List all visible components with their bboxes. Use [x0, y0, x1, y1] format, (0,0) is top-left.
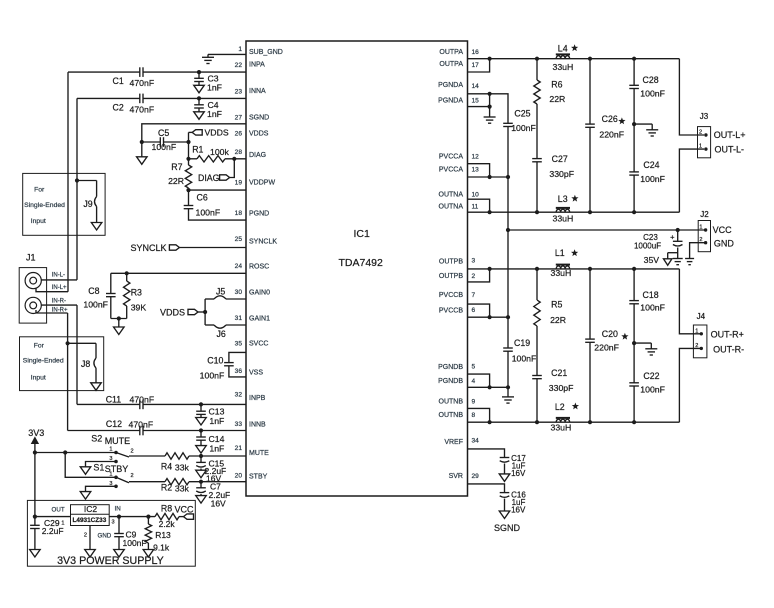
svg-text:100nF: 100nF: [200, 370, 225, 380]
star L1: [571, 249, 578, 256]
svg-text:16V: 16V: [211, 499, 226, 509]
node stby feed junction: [63, 450, 67, 454]
svg-text:18: 18: [235, 210, 243, 217]
IC IC1 TDA7492 body: [246, 41, 468, 496]
wire IC2 GND pin: [89, 526, 91, 550]
ground bars PGNDB: [502, 396, 514, 398]
svg-text:+: +: [670, 232, 675, 241]
svg-text:J8: J8: [81, 359, 90, 369]
ground arrow below C29: [34, 529, 36, 550]
resistor R2 33k: [165, 479, 189, 485]
svg-text:100nF: 100nF: [196, 208, 221, 218]
node INNA junction: [197, 96, 201, 100]
wire R1 row to pin28: [189, 158, 198, 160]
wire OUT-R- to J4: [679, 348, 700, 422]
wire VCC row to J2: [508, 229, 706, 231]
svg-text:J9: J9: [83, 199, 92, 209]
capacitor C1 470nF: [139, 67, 141, 77]
svg-text:VDDS: VDDS: [160, 308, 185, 318]
svg-text:100nF: 100nF: [123, 538, 147, 548]
svg-text:For: For: [34, 343, 45, 350]
svg-text:100nF: 100nF: [640, 88, 665, 98]
svg-text:PGNDB: PGNDB: [438, 378, 463, 385]
svg-text:4: 4: [472, 378, 476, 385]
svg-text:OUT-R+: OUT-R+: [711, 329, 744, 339]
wire IN-L- vertical: [76, 98, 78, 280]
node C18/C22 mid junction: [632, 341, 636, 345]
node R7 bottom / pin19 junction: [186, 188, 190, 192]
svg-text:S2: S2: [91, 434, 102, 444]
resistor R1 100k: [197, 156, 225, 162]
jumper J6: [214, 325, 226, 328]
node R5/C21 bottom: [535, 420, 539, 424]
svg-text:VREF: VREF: [444, 439, 463, 446]
svg-text:12: 12: [472, 153, 480, 160]
svg-text:PVCCB: PVCCB: [439, 292, 463, 299]
svg-text:C19: C19: [514, 338, 530, 348]
svg-text:39K: 39K: [131, 303, 147, 313]
capacitor C27 330pF: [536, 104, 538, 159]
svg-text:VSS: VSS: [249, 370, 263, 377]
svg-text:22R: 22R: [550, 315, 566, 325]
svg-text:SYNCLK: SYNCLK: [249, 239, 277, 246]
resistor R8 2.2k: [155, 513, 179, 519]
svg-text:Input: Input: [31, 218, 46, 225]
svg-text:1: 1: [699, 225, 702, 231]
svg-text:J4: J4: [697, 312, 706, 321]
wire down to R1/R7 junction: [188, 142, 190, 165]
svg-text:470nF: 470nF: [130, 105, 155, 115]
svg-text:33k: 33k: [175, 463, 190, 473]
svg-text:VDDS: VDDS: [205, 128, 229, 138]
svg-text:OUTPB: OUTPB: [439, 259, 463, 266]
wire OUTPB row pin3: [468, 268, 680, 270]
svg-text:PGNDA: PGNDA: [438, 98, 463, 105]
svg-text:21: 21: [235, 445, 243, 452]
svg-text:C28: C28: [643, 75, 659, 85]
svg-text:100nF: 100nF: [511, 123, 536, 133]
node pin16/17 junction: [488, 57, 492, 61]
capacitor C7 2.2uF 16V: [200, 482, 202, 488]
svg-text:C27: C27: [552, 154, 568, 164]
svg-text:3: 3: [109, 456, 112, 462]
ground bars PGNDA: [484, 116, 496, 118]
node C18/C22 bottom: [632, 420, 636, 424]
resistor R7 22R: [185, 165, 191, 188]
wire rail to ground B: [507, 387, 509, 397]
ground bars A mid: [646, 129, 658, 131]
ground arrow S1: [80, 492, 91, 500]
wire pin35 SVCC: [229, 352, 246, 362]
svg-text:INPB: INPB: [249, 395, 266, 402]
svg-text:SVR: SVR: [449, 473, 463, 480]
wire pin12 bracket: [468, 164, 490, 177]
svg-text:7: 7: [472, 292, 476, 299]
svg-text:IN-R+: IN-R+: [52, 308, 68, 314]
svg-text:MUTE: MUTE: [105, 436, 131, 446]
wire to mid ground B: [634, 342, 651, 344]
svg-text:OUT-R-: OUT-R-: [713, 344, 744, 354]
ground arrow below C7: [200, 494, 202, 496]
resistor R3 39K: [126, 273, 128, 281]
node C20 top: [588, 267, 592, 271]
svg-text:C22: C22: [643, 371, 659, 381]
svg-text:SUB_GND: SUB_GND: [249, 49, 283, 56]
capacitor C18 100nF: [633, 269, 635, 301]
wire OUTPA row pin16: [468, 58, 680, 60]
svg-text:16V: 16V: [511, 469, 526, 478]
ground arrow S2: [80, 467, 91, 475]
capacitor C20 220nF: [589, 269, 591, 339]
svg-text:GND: GND: [98, 533, 112, 540]
regulator IC2 L4931CZ33: [71, 505, 110, 526]
star C20: [621, 333, 628, 340]
svg-text:2: 2: [131, 473, 134, 479]
svg-text:OUTPA: OUTPA: [439, 49, 463, 56]
svg-text:35: 35: [235, 341, 243, 348]
wire pin30 GAIN0: [205, 298, 214, 300]
svg-text:VDDPW: VDDPW: [249, 180, 275, 187]
node ground junction: [117, 316, 121, 320]
svg-text:R7: R7: [171, 162, 182, 172]
svg-text:9: 9: [472, 399, 476, 406]
wire J1 IN-L+ pin: [36, 288, 68, 292]
node R13 junction: [146, 515, 150, 519]
svg-text:3: 3: [109, 481, 112, 487]
ground arrow J8: [91, 383, 102, 391]
svg-text:C10: C10: [207, 355, 223, 365]
wire OUT-R+ to J4: [679, 269, 700, 334]
capacitor C19 100nF: [507, 317, 509, 348]
capacitor C26 220nF: [589, 59, 591, 124]
wire pin34 VREF: [468, 449, 505, 458]
svg-text:R2: R2: [161, 482, 172, 492]
svg-text:PGNDB: PGNDB: [438, 364, 463, 371]
svg-text:33uH: 33uH: [553, 62, 574, 72]
svg-text:100nF: 100nF: [512, 354, 537, 364]
3V3 power supply box: [27, 500, 195, 566]
node C20 bottom: [588, 420, 592, 424]
svg-text:8: 8: [472, 412, 476, 419]
svg-text:1nF: 1nF: [209, 416, 224, 426]
wire pin1 SUB_GND: [208, 53, 246, 55]
flag VDDS net at gain: [198, 311, 205, 313]
ground arrow below C17: [504, 464, 506, 474]
wire pin36 VSS: [229, 366, 246, 377]
node pin10/11 junction: [488, 210, 492, 214]
svg-text:25: 25: [235, 236, 243, 243]
node INPA junction: [197, 70, 201, 74]
svg-text:31: 31: [235, 315, 243, 322]
svg-text:22R: 22R: [549, 94, 565, 104]
capacitor C5 100nF: [142, 141, 161, 143]
svg-text:1: 1: [699, 144, 702, 150]
node R1 right junction: [232, 157, 236, 161]
capacitor C3 1nF: [198, 72, 200, 78]
wire pin4 PGNDB row: [468, 386, 509, 388]
star C26: [618, 117, 625, 124]
svg-text:IN-L-: IN-L-: [52, 273, 65, 279]
svg-text:INPA: INPA: [249, 62, 265, 69]
wire pin27 SGND: [142, 124, 246, 142]
resistor R5 22R: [536, 269, 538, 300]
svg-text:STBY: STBY: [249, 474, 268, 481]
wire OUT-L+ to J3: [679, 59, 704, 135]
svg-text:2: 2: [695, 343, 698, 349]
node VDDS gain junction: [203, 310, 207, 314]
wire pin2 bracket: [468, 269, 490, 282]
wire stby feed: [65, 453, 116, 478]
svg-text:C11: C11: [106, 394, 122, 404]
star L4: [571, 44, 578, 51]
svg-text:33uH: 33uH: [553, 214, 574, 224]
svg-text:For: For: [34, 186, 45, 193]
svg-text:100nF: 100nF: [640, 303, 665, 313]
node VDDS junction on C5 row: [186, 140, 190, 144]
capacitor C29 2.2uF: [34, 517, 36, 526]
ground arrow C23: [663, 259, 672, 266]
svg-text:33k: 33k: [175, 484, 190, 494]
svg-text:IN-R-: IN-R-: [52, 298, 66, 304]
svg-text:MUTE: MUTE: [249, 450, 269, 457]
svg-text:22: 22: [235, 62, 243, 69]
svg-text:15: 15: [472, 98, 480, 105]
wire pin14 PGNDA to C25: [468, 94, 509, 124]
ground bars at SUB_GND: [202, 56, 214, 58]
svg-text:IC1: IC1: [354, 228, 371, 240]
svg-text:330pF: 330pF: [549, 383, 574, 393]
svg-text:5: 5: [472, 363, 476, 370]
wire MUTE row: [129, 455, 165, 457]
svg-text:L1: L1: [555, 248, 565, 258]
capacitor C10 100nF: [224, 362, 234, 364]
wire INPA row: [68, 71, 140, 73]
svg-text:470nF: 470nF: [130, 78, 155, 88]
svg-text:11: 11: [472, 204, 479, 211]
wire C8/R3 bottom join: [111, 318, 127, 320]
flag DIAG net: [220, 175, 230, 180]
wire IN-L+ vertical: [67, 72, 69, 292]
svg-text:33uH: 33uH: [551, 423, 572, 433]
capacitor C8 100nF: [110, 273, 112, 293]
svg-text:PVCCA: PVCCA: [439, 153, 463, 160]
svg-text:L4: L4: [558, 43, 568, 53]
capacitor C15 2.2uF 16V: [200, 456, 202, 462]
node C28/C24 bottom: [632, 210, 636, 214]
svg-text:Single-Ended: Single-Ended: [24, 202, 65, 209]
svg-text:OUT-L-: OUT-L-: [715, 145, 745, 155]
svg-text:R6: R6: [551, 79, 562, 89]
svg-text:STBY: STBY: [105, 464, 129, 474]
svg-text:1000uF: 1000uF: [634, 241, 661, 250]
node pin3/2 junction: [488, 267, 492, 271]
svg-text:2: 2: [472, 273, 476, 280]
svg-text:VCC: VCC: [175, 505, 195, 515]
ground bars J2: [685, 258, 694, 260]
node pin15 junction: [488, 105, 492, 109]
capacitor C16 1uF 16V: [500, 492, 510, 494]
node C9 junction: [117, 515, 121, 519]
capacitor C24 100nF: [633, 124, 635, 172]
svg-text:J6: J6: [217, 329, 226, 339]
node PVCCB rail junction: [506, 315, 510, 319]
wire IC2 OUT to 3V3 rail: [35, 516, 71, 518]
svg-text:VDDS: VDDS: [249, 130, 269, 137]
svg-text:R8: R8: [161, 503, 172, 513]
wire OUTNA row pin11: [468, 211, 680, 213]
svg-text:Input: Input: [31, 375, 46, 382]
svg-text:C20: C20: [602, 329, 618, 339]
wire mute feed: [35, 452, 116, 454]
node pin14 junction: [488, 92, 492, 96]
svg-text:PGND: PGND: [249, 211, 269, 218]
svg-text:L4931CZ33: L4931CZ33: [73, 517, 107, 524]
svg-text:100nF: 100nF: [640, 385, 665, 395]
svg-text:IN-L+: IN-L+: [52, 285, 67, 291]
wire INPB row: [77, 403, 140, 405]
wire PVCC rail: [507, 177, 509, 317]
svg-text:C5: C5: [158, 128, 169, 138]
ground arrow below C4: [198, 108, 200, 112]
svg-text:19: 19: [235, 180, 243, 187]
ground bars B mid: [645, 348, 657, 350]
svg-text:C21: C21: [551, 368, 567, 378]
capacitor C12 470nF: [139, 426, 141, 436]
svg-text:J3: J3: [700, 112, 709, 121]
svg-text:DIAG: DIAG: [198, 173, 220, 183]
jumper J5: [214, 296, 226, 299]
svg-text:C18: C18: [643, 290, 659, 300]
wire INNA row: [77, 97, 140, 99]
svg-text:100nF: 100nF: [640, 174, 665, 184]
ground arrow below C3: [198, 82, 200, 86]
node J8 junction: [66, 341, 70, 345]
svg-text:33: 33: [235, 421, 243, 428]
node pin12/13 junction: [488, 175, 492, 179]
resistor R4 33k: [165, 453, 189, 459]
wire GAIN bracket vertical: [204, 299, 206, 325]
svg-text:OUTNB: OUTNB: [439, 399, 464, 406]
capacitor C28 100nF: [633, 59, 635, 86]
svg-text:SGND: SGND: [494, 523, 521, 533]
svg-text:L3: L3: [558, 194, 568, 204]
ground arrow below C5 junction: [141, 142, 143, 157]
svg-text:IC2: IC2: [84, 504, 98, 514]
inductor L4 33uH: [556, 56, 569, 59]
svg-text:J1: J1: [26, 252, 36, 262]
node C18 top: [632, 267, 636, 271]
wire J1 IN-R- pin: [41, 304, 77, 306]
node R1/R7 junction: [186, 157, 190, 161]
svg-text:GAIN1: GAIN1: [249, 316, 270, 323]
svg-text:J5: J5: [216, 286, 225, 296]
svg-text:100nF: 100nF: [152, 142, 177, 152]
svg-text:17: 17: [472, 62, 480, 69]
node PGNDB rail junction: [506, 385, 510, 389]
star L2: [572, 403, 579, 410]
svg-text:2: 2: [84, 533, 87, 539]
svg-text:100k: 100k: [210, 147, 229, 157]
capacitor C25 100nF: [503, 122, 513, 124]
node C26 top: [588, 57, 592, 61]
svg-text:C25: C25: [514, 108, 530, 118]
ground arrow below C15: [200, 469, 202, 471]
svg-text:C26: C26: [602, 114, 618, 124]
wire DIAG flag branch: [230, 159, 235, 178]
svg-text:1nF: 1nF: [209, 443, 224, 453]
ground arrow below C9: [118, 537, 120, 550]
svg-text:27: 27: [235, 115, 243, 122]
node C23 ground split: [668, 252, 678, 254]
svg-text:24: 24: [235, 263, 243, 270]
capacitor C14 1nF: [200, 431, 202, 438]
ground arrow below IC2: [85, 550, 96, 558]
wire J1 IN-R+ pin: [36, 310, 68, 313]
svg-text:2: 2: [699, 130, 702, 136]
svg-text:OUTNA: OUTNA: [439, 204, 464, 211]
jumper J8: [68, 342, 96, 344]
wire pin10 bracket: [468, 199, 490, 212]
svg-text:470nF: 470nF: [129, 420, 154, 430]
wire pin29 SVR: [468, 484, 505, 493]
svg-text:S1: S1: [93, 462, 104, 472]
wire pin6 PVCCB row: [468, 316, 509, 318]
node pin5/4 junction: [488, 385, 492, 389]
svg-text:OUTPB: OUTPB: [439, 273, 463, 280]
wire pin19 VDDPW: [189, 189, 247, 191]
node C28 top: [632, 57, 636, 61]
svg-text:220nF: 220nF: [599, 130, 624, 140]
capacitor C22 100nF: [633, 343, 635, 383]
wire J2 pin2 to ground: [690, 243, 706, 259]
svg-text:INNA: INNA: [249, 88, 266, 95]
svg-text:9.1k: 9.1k: [153, 543, 170, 553]
svg-text:2: 2: [131, 448, 134, 454]
svg-text:10: 10: [472, 192, 480, 199]
node C23 junction: [676, 228, 680, 232]
svg-text:OUTNB: OUTNB: [439, 412, 464, 419]
ground arrow below C13: [200, 414, 202, 417]
svg-text:1nF: 1nF: [207, 109, 222, 119]
wire pin9 bracket: [468, 408, 490, 422]
node J9 junction: [75, 178, 79, 182]
svg-text:Single-Ended: Single-Ended: [23, 357, 64, 364]
flag VDDS net at pin26: [189, 131, 193, 133]
wire OUT-L- to J3: [679, 149, 704, 212]
svg-text:R4: R4: [161, 461, 172, 471]
capacitor C17 1uF 16V: [500, 457, 510, 459]
svg-text:470nF: 470nF: [130, 395, 155, 405]
svg-text:C1: C1: [113, 76, 124, 86]
capacitor C13 1nF: [200, 404, 202, 411]
wire IC2 IN row: [109, 516, 155, 518]
ground arrow below C8/R3: [118, 319, 120, 328]
svg-text:22R: 22R: [168, 176, 184, 186]
svg-text:C2: C2: [113, 102, 124, 112]
svg-text:3: 3: [112, 520, 115, 526]
wire OUTNB row pin8: [468, 421, 680, 423]
svg-text:IN: IN: [115, 506, 121, 513]
svg-text:220nF: 220nF: [594, 343, 619, 353]
node STBY junction: [199, 480, 203, 484]
svg-text:R13: R13: [155, 530, 171, 540]
svg-text:6: 6: [472, 307, 476, 314]
wire STBY row: [129, 481, 165, 483]
jumper J9: [77, 180, 97, 182]
svg-text:DIAG: DIAG: [249, 152, 266, 159]
wire pin15 PGNDA: [468, 106, 490, 108]
wire pin7 bracket: [468, 304, 490, 317]
